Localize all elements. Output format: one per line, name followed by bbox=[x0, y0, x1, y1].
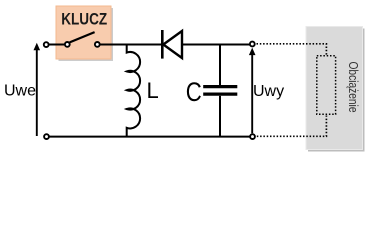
capacitor C bottom plate bbox=[203, 92, 237, 95]
svg-text:L: L bbox=[147, 78, 159, 103]
Uwe voltage arrow bbox=[36, 49, 38, 136]
Uwy voltage arrow bbox=[251, 54, 253, 133]
output node top bbox=[250, 42, 255, 47]
svg-text:KLUCZ: KLUCZ bbox=[61, 10, 107, 29]
svg-text:Obciążenie: Obciążenie bbox=[346, 62, 360, 113]
diode D cathode bar bbox=[161, 30, 164, 59]
load box (Obciazenie) bbox=[306, 27, 363, 150]
capacitor C top lead bbox=[219, 45, 221, 86]
svg-text:Uwy: Uwy bbox=[253, 83, 284, 100]
dotted wire: bottom node to load bbox=[257, 116, 327, 137]
svg-text:C: C bbox=[186, 77, 202, 107]
KLUCZ box shadow bbox=[59, 8, 114, 61]
capacitor C bottom lead bbox=[219, 96, 221, 137]
wire: top, diode anode to output node bbox=[182, 44, 250, 46]
switch KLUCZ lever bbox=[70, 32, 95, 42]
wire: top, switch throw to diode cathode bbox=[100, 44, 161, 46]
wire: bottom rail bbox=[49, 136, 250, 138]
svg-text:Uwe: Uwe bbox=[4, 83, 36, 100]
inductor L bbox=[127, 45, 140, 137]
wire: top, input terminal to switch pole bbox=[49, 44, 65, 46]
capacitor C top plate bbox=[203, 85, 237, 88]
switch pole contact bbox=[65, 42, 70, 47]
output node bottom bbox=[250, 134, 255, 139]
input terminal bottom bbox=[44, 134, 49, 139]
KLUCZ box bbox=[56, 6, 111, 59]
load dashed rectangle bbox=[317, 56, 336, 115]
dotted wire: top node to load bbox=[257, 44, 327, 55]
load box shadow bbox=[308, 29, 365, 152]
diode D triangle bbox=[163, 31, 182, 58]
input terminal top bbox=[44, 42, 49, 47]
switch throw contact bbox=[95, 42, 100, 47]
